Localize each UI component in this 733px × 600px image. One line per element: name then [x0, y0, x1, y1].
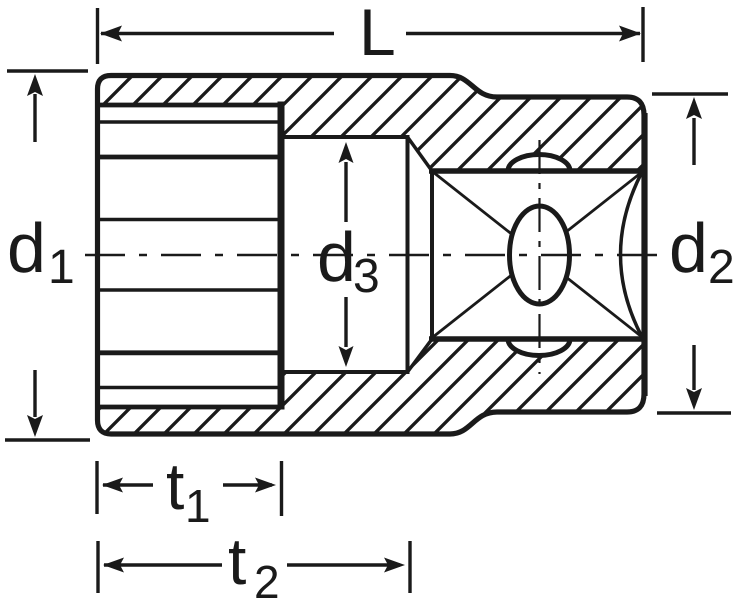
svg-text:2: 2 [254, 556, 280, 600]
svg-text:1: 1 [48, 241, 75, 294]
svg-text:t: t [166, 449, 184, 523]
svg-text:d: d [7, 209, 46, 287]
svg-text:1: 1 [185, 480, 211, 532]
svg-text:d: d [317, 218, 356, 296]
svg-text:d: d [669, 209, 708, 287]
svg-text:2: 2 [708, 241, 733, 294]
svg-text:t: t [228, 524, 246, 598]
svg-text:3: 3 [353, 250, 380, 303]
svg-text:L: L [359, 0, 396, 69]
